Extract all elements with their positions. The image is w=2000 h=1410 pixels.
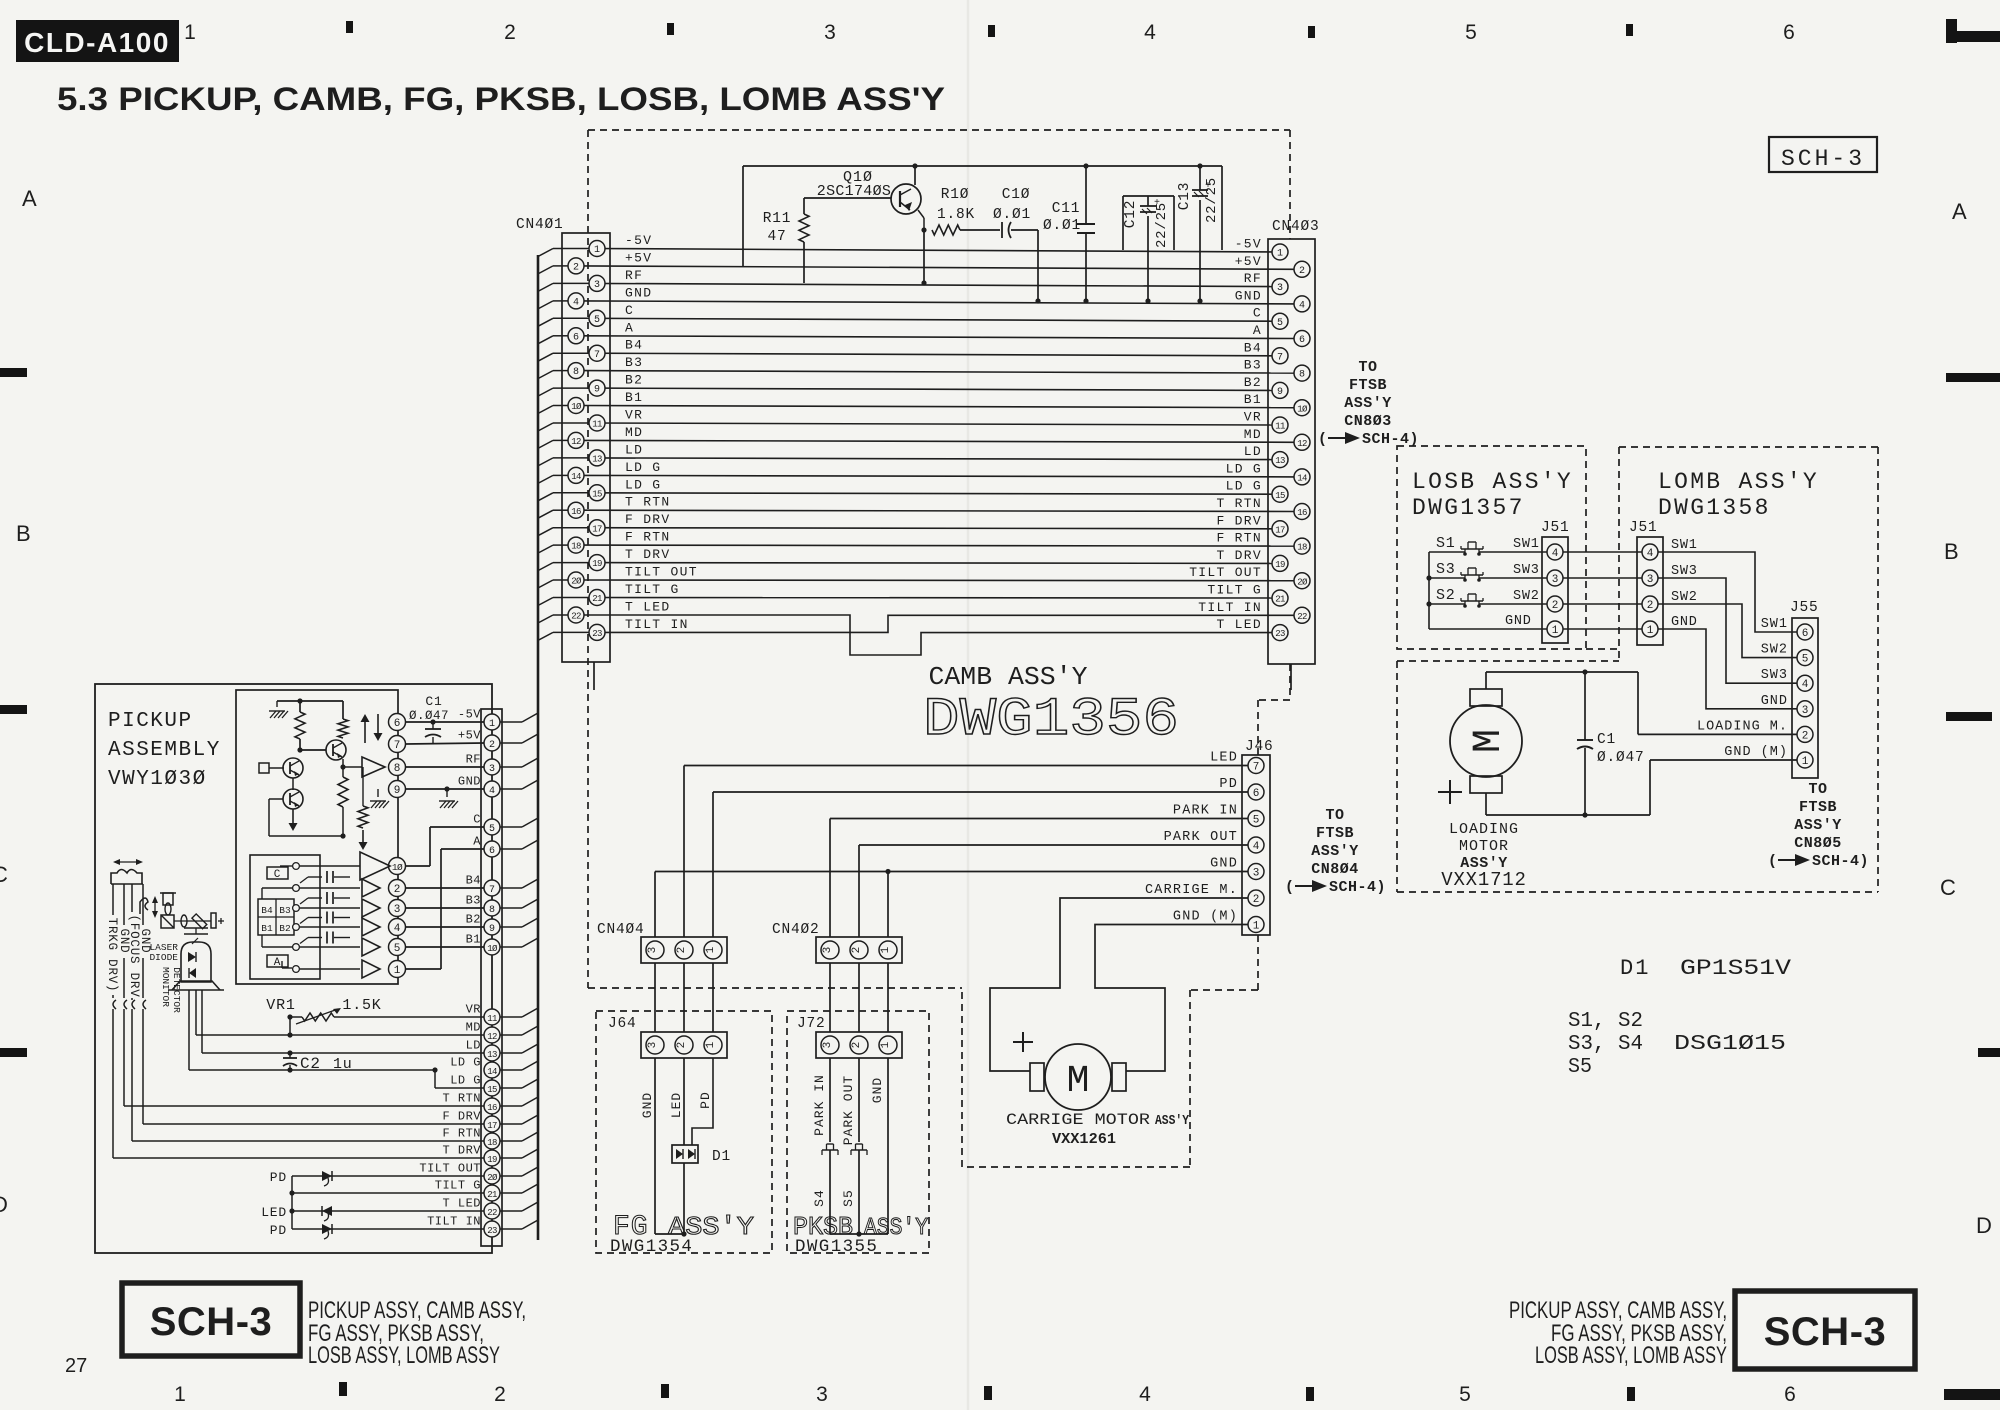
svg-text:22: 22	[571, 612, 581, 622]
svg-text:13: 13	[1275, 456, 1285, 466]
svg-text:B2: B2	[625, 373, 643, 388]
svg-text:PD: PD	[698, 1091, 713, 1109]
svg-text:B4: B4	[261, 905, 273, 916]
svg-text:A: A	[274, 957, 281, 969]
svg-text:16: 16	[487, 1103, 497, 1113]
svg-text:LD G: LD G	[450, 1074, 481, 1088]
svg-text:6: 6	[1784, 1383, 1796, 1406]
svg-text:CARRIGE M.: CARRIGE M.	[1145, 883, 1238, 898]
svg-text:14: 14	[571, 472, 581, 482]
svg-text:1: 1	[1552, 625, 1559, 637]
svg-text:J51: J51	[1629, 520, 1658, 536]
svg-text:S5: S5	[841, 1189, 856, 1207]
svg-text:C: C	[1940, 875, 1956, 900]
svg-text:SW2: SW2	[1761, 643, 1788, 658]
svg-text:CN4Ø1: CN4Ø1	[516, 217, 564, 233]
svg-text:7: 7	[489, 885, 495, 896]
svg-text:F DRV: F DRV	[442, 1110, 481, 1124]
svg-text:TILT G: TILT G	[1207, 583, 1262, 598]
svg-text:TILT G: TILT G	[435, 1179, 481, 1193]
svg-text:PARK OUT: PARK OUT	[841, 1075, 856, 1145]
svg-text:D: D	[1976, 1213, 1992, 1238]
svg-text:B2: B2	[279, 923, 291, 934]
svg-text:9: 9	[489, 924, 495, 935]
svg-text:DWG1355: DWG1355	[795, 1237, 878, 1257]
svg-text:VWY1Ø3Ø: VWY1Ø3Ø	[108, 768, 207, 791]
svg-text:2: 2	[504, 21, 516, 44]
svg-text:6: 6	[573, 332, 579, 343]
svg-text:ASS'Y: ASS'Y	[1344, 395, 1392, 412]
svg-text:21: 21	[1275, 595, 1285, 605]
svg-text:C2: C2	[300, 1055, 321, 1073]
svg-text:+5V: +5V	[1235, 254, 1262, 269]
svg-text:1: 1	[705, 946, 717, 953]
svg-text:3: 3	[594, 280, 600, 291]
svg-text:Ø.Ø47: Ø.Ø47	[409, 709, 449, 723]
svg-text:1: 1	[1802, 756, 1809, 768]
svg-text:1Ø: 1Ø	[392, 862, 403, 873]
svg-text:B2: B2	[466, 913, 481, 927]
svg-text:4: 4	[1552, 548, 1559, 560]
svg-text:17: 17	[592, 524, 602, 534]
svg-text:B3: B3	[1244, 358, 1262, 373]
svg-text:-5V: -5V	[625, 233, 652, 248]
svg-text:4: 4	[573, 298, 579, 309]
svg-text:Ø.Ø1: Ø.Ø1	[993, 207, 1031, 223]
svg-text:19: 19	[592, 559, 602, 569]
svg-text:3: 3	[1552, 574, 1559, 586]
svg-text:6: 6	[1783, 21, 1795, 44]
svg-text:B1: B1	[466, 933, 481, 947]
svg-text:J64: J64	[608, 1016, 637, 1032]
svg-text:B4: B4	[625, 338, 643, 353]
svg-text:C: C	[625, 303, 634, 318]
svg-text:4: 4	[394, 923, 401, 935]
svg-text:21: 21	[487, 1190, 497, 1200]
svg-text:1Ø: 1Ø	[487, 944, 498, 954]
svg-text:23: 23	[1275, 629, 1285, 639]
svg-text:16: 16	[571, 507, 581, 517]
svg-text:22/25: 22/25	[1154, 202, 1170, 248]
svg-text:2Ø: 2Ø	[487, 1173, 498, 1183]
svg-text:6: 6	[394, 718, 401, 730]
svg-text:SW1: SW1	[1671, 538, 1698, 553]
svg-text:(: (	[1285, 879, 1294, 896]
svg-text:5: 5	[1802, 654, 1809, 666]
svg-text:S1: S1	[1436, 535, 1456, 552]
svg-text:T DRV: T DRV	[1216, 548, 1262, 563]
svg-text:CN8Ø4: CN8Ø4	[1311, 861, 1359, 878]
svg-text:B1: B1	[261, 923, 273, 934]
svg-text:1Ø: 1Ø	[1297, 404, 1308, 414]
svg-text:8: 8	[1299, 370, 1305, 381]
svg-text:5: 5	[489, 824, 495, 835]
svg-text:DWG1356: DWG1356	[923, 690, 1179, 751]
svg-text:2: 2	[676, 947, 688, 954]
svg-text:TILT OUT: TILT OUT	[1189, 565, 1262, 580]
svg-text:B3: B3	[466, 894, 481, 908]
svg-text:3: 3	[647, 1042, 659, 1049]
svg-text:F DRV: F DRV	[625, 512, 671, 527]
svg-text:GND: GND	[625, 285, 652, 300]
svg-text:12: 12	[1297, 439, 1307, 449]
svg-text:CN4Ø3: CN4Ø3	[1272, 219, 1320, 235]
svg-text:5: 5	[1253, 815, 1260, 827]
svg-text:GND: GND	[870, 1077, 885, 1103]
svg-text:T LED: T LED	[1216, 617, 1262, 632]
svg-text:1: 1	[489, 719, 495, 730]
svg-text:14: 14	[487, 1067, 497, 1077]
svg-text:TO: TO	[1325, 807, 1344, 824]
svg-text:SW1: SW1	[1513, 537, 1540, 552]
svg-text:(: (	[1768, 853, 1777, 870]
svg-text:ASS'Y: ASS'Y	[1155, 1113, 1189, 1129]
svg-text:ASS'Y: ASS'Y	[1311, 843, 1359, 860]
svg-text:1: 1	[1647, 625, 1654, 637]
svg-text:M: M	[1067, 1060, 1090, 1103]
svg-text:C: C	[473, 813, 481, 827]
svg-text:2Ø: 2Ø	[1297, 577, 1308, 587]
svg-text:15: 15	[487, 1085, 497, 1095]
svg-text:SW2: SW2	[1671, 590, 1698, 605]
svg-text:5: 5	[1459, 1383, 1471, 1406]
svg-text:GND: GND	[1235, 288, 1262, 303]
svg-text:D1: D1	[1620, 956, 1650, 981]
svg-text:PD: PD	[270, 1223, 287, 1238]
svg-text:T DRV: T DRV	[625, 547, 671, 562]
svg-text:4: 4	[1144, 21, 1156, 44]
svg-text:-5V: -5V	[1235, 237, 1262, 252]
svg-text:CARRIGE MOTOR: CARRIGE MOTOR	[1006, 1111, 1150, 1129]
svg-text:+5V: +5V	[458, 729, 481, 743]
svg-text:1Ø: 1Ø	[571, 402, 582, 412]
svg-text:3: 3	[1277, 283, 1283, 294]
svg-text:11: 11	[487, 1014, 497, 1024]
svg-text:2: 2	[1253, 894, 1260, 906]
svg-text:2: 2	[676, 1042, 688, 1049]
svg-text:2: 2	[1647, 600, 1654, 612]
svg-text:SCH-3: SCH-3	[150, 1300, 273, 1344]
svg-text:4: 4	[1802, 679, 1809, 691]
svg-text:CAMB ASS'Y: CAMB ASS'Y	[929, 662, 1088, 692]
svg-text:PD: PD	[270, 1170, 287, 1185]
svg-text:VXX1712: VXX1712	[1441, 869, 1526, 891]
svg-text:MOTOR: MOTOR	[1459, 838, 1509, 855]
svg-text:FTSB: FTSB	[1349, 377, 1387, 394]
svg-text:D: D	[0, 1192, 8, 1217]
svg-text:5: 5	[1277, 318, 1283, 329]
svg-text:SW3: SW3	[1761, 668, 1788, 683]
svg-text:21: 21	[592, 594, 602, 604]
svg-text:PD: PD	[1219, 777, 1238, 792]
svg-text:CN4Ø2: CN4Ø2	[772, 922, 820, 938]
svg-text:1u: 1u	[333, 1056, 353, 1073]
svg-text:SCH-4): SCH-4)	[1812, 853, 1869, 870]
svg-text:TILT IN: TILT IN	[625, 617, 689, 632]
svg-text:1: 1	[705, 1041, 717, 1048]
svg-text:A: A	[22, 186, 37, 211]
svg-text:1: 1	[1253, 921, 1260, 933]
svg-text:2SC174ØS: 2SC174ØS	[817, 183, 891, 200]
svg-text:12: 12	[571, 437, 581, 447]
svg-text:MD: MD	[625, 425, 643, 440]
svg-text:LOSB ASSY, LOMB ASSY: LOSB ASSY, LOMB ASSY	[308, 1342, 500, 1369]
svg-text:8: 8	[573, 367, 579, 378]
svg-text:47: 47	[767, 229, 786, 245]
svg-text:13: 13	[487, 1050, 497, 1060]
svg-text:6: 6	[1802, 628, 1809, 640]
svg-text:2: 2	[394, 884, 401, 896]
svg-text:17: 17	[487, 1121, 497, 1131]
svg-text:J55: J55	[1790, 600, 1819, 616]
svg-text:GND: GND	[1671, 615, 1698, 630]
svg-text:3: 3	[822, 1042, 834, 1049]
svg-text:4: 4	[1253, 841, 1260, 853]
svg-text:VR: VR	[625, 408, 643, 423]
svg-text:GND: GND	[1210, 857, 1238, 872]
svg-text:GND: GND	[458, 775, 481, 789]
svg-text:R11: R11	[763, 211, 792, 227]
svg-text:TILT OUT: TILT OUT	[419, 1162, 481, 1176]
svg-text:T RTN: T RTN	[442, 1092, 481, 1106]
svg-text:LD G: LD G	[625, 460, 661, 475]
svg-text:MD: MD	[1244, 427, 1262, 442]
svg-text:LD: LD	[625, 442, 643, 457]
svg-text:A: A	[473, 835, 481, 849]
svg-text:3: 3	[1802, 705, 1809, 717]
svg-text:B: B	[16, 521, 31, 546]
svg-text:3: 3	[816, 1383, 828, 1406]
svg-text:C12: C12	[1123, 200, 1139, 229]
svg-text:TILT IN: TILT IN	[1198, 600, 1262, 615]
svg-text:18: 18	[1297, 543, 1307, 553]
svg-text:DWG1357: DWG1357	[1412, 495, 1525, 521]
svg-text:LD G: LD G	[1226, 461, 1262, 476]
svg-text:18: 18	[571, 542, 581, 552]
svg-text:LD: LD	[1244, 444, 1262, 459]
svg-text:DSG1Ø15: DSG1Ø15	[1674, 1033, 1786, 1056]
svg-text:DIODE: DIODE	[149, 952, 178, 963]
svg-text:VR: VR	[1244, 410, 1262, 425]
svg-text:FTSB: FTSB	[1799, 799, 1837, 816]
svg-text:LOADING: LOADING	[1449, 821, 1519, 838]
svg-text:3: 3	[822, 947, 834, 954]
svg-text:2: 2	[1299, 266, 1305, 277]
svg-text:ASS'Y: ASS'Y	[1794, 817, 1842, 834]
svg-text:TILT OUT: TILT OUT	[625, 565, 698, 580]
svg-text:1: 1	[880, 946, 892, 953]
svg-text:RF: RF	[625, 268, 643, 283]
svg-text:5: 5	[394, 943, 401, 955]
svg-text:LED: LED	[261, 1205, 287, 1220]
svg-text:TILT IN: TILT IN	[427, 1215, 481, 1229]
svg-text:T RTN: T RTN	[625, 495, 671, 510]
svg-text:B2: B2	[1244, 375, 1262, 390]
svg-text:5: 5	[594, 315, 600, 326]
svg-text:C1: C1	[1597, 732, 1616, 748]
svg-text:15: 15	[592, 489, 602, 499]
svg-text:+5V: +5V	[625, 250, 652, 265]
svg-text:A: A	[1952, 199, 1967, 224]
svg-text:S4: S4	[812, 1189, 827, 1207]
svg-text:-5V: -5V	[458, 708, 481, 722]
svg-text:A: A	[625, 320, 634, 335]
svg-text:VXX1261: VXX1261	[1052, 1132, 1116, 1148]
svg-text:SW2: SW2	[1513, 589, 1540, 604]
svg-text:MONITOR: MONITOR	[160, 967, 171, 1007]
svg-text:1.5K: 1.5K	[342, 997, 381, 1014]
svg-text:2: 2	[1552, 600, 1559, 612]
svg-text:22: 22	[487, 1208, 497, 1218]
svg-text:MD: MD	[466, 1021, 481, 1035]
svg-text:CN4Ø4: CN4Ø4	[597, 922, 645, 938]
svg-text:2: 2	[494, 1383, 506, 1406]
svg-text:14: 14	[1297, 474, 1307, 484]
svg-text:2: 2	[851, 1042, 863, 1049]
svg-text:A: A	[1253, 323, 1262, 338]
svg-text:4: 4	[1139, 1383, 1151, 1406]
svg-text:SCH-3: SCH-3	[1764, 1310, 1887, 1354]
svg-text:C13: C13	[1177, 182, 1193, 211]
svg-text:1: 1	[594, 245, 600, 256]
svg-text:LED: LED	[1210, 751, 1238, 766]
svg-text:8: 8	[394, 763, 401, 775]
svg-text:23: 23	[487, 1226, 497, 1236]
svg-text:PICKUP: PICKUP	[108, 710, 193, 733]
svg-text:22: 22	[1297, 612, 1307, 622]
svg-text:LED: LED	[669, 1092, 684, 1118]
svg-text:1: 1	[184, 21, 196, 44]
svg-text:GND: GND	[1505, 614, 1532, 629]
svg-text:4: 4	[1299, 301, 1305, 312]
svg-text:DWG1358: DWG1358	[1658, 495, 1771, 521]
svg-text:4: 4	[489, 786, 495, 797]
svg-text:18: 18	[487, 1138, 497, 1148]
svg-text:M: M	[1467, 729, 1512, 753]
svg-text:3: 3	[489, 764, 495, 775]
svg-text:B3: B3	[279, 905, 291, 916]
svg-text:TILT G: TILT G	[625, 582, 680, 597]
svg-text:C: C	[274, 869, 281, 881]
svg-text:PARK OUT: PARK OUT	[1164, 830, 1238, 845]
svg-text:F RTN: F RTN	[625, 530, 671, 545]
svg-text:TRKG DRV): TRKG DRV)	[105, 918, 119, 993]
svg-text:C1: C1	[425, 694, 442, 709]
svg-text:19: 19	[1275, 560, 1285, 570]
svg-text:9: 9	[594, 385, 600, 396]
svg-text:CLD-A100: CLD-A100	[24, 27, 170, 58]
svg-text:23: 23	[592, 629, 602, 639]
svg-text:B: B	[1944, 539, 1959, 564]
svg-text:Ø.Ø1: Ø.Ø1	[1043, 218, 1081, 234]
svg-text:C: C	[1253, 306, 1262, 321]
svg-text:GND: GND	[640, 1092, 655, 1118]
svg-text:4: 4	[1647, 548, 1654, 560]
svg-text:DWG1354: DWG1354	[610, 1237, 693, 1257]
svg-text:GND: GND	[1761, 694, 1788, 709]
svg-text:1: 1	[174, 1383, 186, 1406]
svg-text:LOADING M.: LOADING M.	[1697, 719, 1788, 734]
svg-text:17: 17	[1275, 525, 1285, 535]
svg-text:SW1: SW1	[1761, 617, 1788, 632]
svg-text:J46: J46	[1245, 739, 1274, 755]
svg-text:VR: VR	[466, 1003, 481, 1017]
svg-text:3: 3	[394, 904, 401, 916]
svg-text:SCH-3: SCH-3	[1781, 146, 1865, 172]
svg-text:8: 8	[489, 905, 495, 916]
svg-text:6: 6	[1299, 335, 1305, 346]
svg-text:VR1: VR1	[266, 997, 295, 1014]
svg-text:(FOCUS DRV: (FOCUS DRV	[127, 914, 141, 997]
svg-text:B3: B3	[625, 355, 643, 370]
svg-text:1.8K: 1.8K	[937, 207, 975, 223]
svg-text:B4: B4	[1244, 340, 1262, 355]
svg-text:B1: B1	[625, 390, 643, 405]
svg-text:2Ø: 2Ø	[571, 577, 582, 587]
svg-text:2: 2	[489, 740, 495, 751]
svg-text:SW3: SW3	[1671, 564, 1698, 579]
svg-text:7: 7	[394, 740, 401, 752]
svg-text:11: 11	[592, 420, 602, 430]
svg-text:T DRV: T DRV	[442, 1144, 481, 1158]
svg-text:15: 15	[1275, 491, 1285, 501]
svg-text:C1Ø: C1Ø	[1002, 187, 1031, 203]
svg-text:11: 11	[1275, 422, 1285, 432]
svg-text:LOMB ASS'Y: LOMB ASS'Y	[1658, 469, 1819, 495]
svg-text:1: 1	[394, 965, 401, 977]
svg-text:S3, S4: S3, S4	[1568, 1033, 1643, 1056]
svg-text:S2: S2	[1436, 587, 1456, 604]
svg-text:9: 9	[394, 785, 401, 797]
svg-text:GP1S51V: GP1S51V	[1680, 956, 1792, 981]
svg-text:CN8Ø5: CN8Ø5	[1794, 835, 1842, 852]
svg-text:ASSEMBLY: ASSEMBLY	[108, 739, 221, 762]
svg-text:9: 9	[1277, 387, 1283, 398]
svg-text:19: 19	[487, 1155, 497, 1165]
svg-text:J51: J51	[1541, 520, 1570, 536]
svg-text:7: 7	[1253, 762, 1260, 774]
svg-text:LOSB ASSY, LOMB ASSY: LOSB ASSY, LOMB ASSY	[1535, 1342, 1727, 1369]
svg-text:5.3 PICKUP, CAMB, FG, PKSB, L: 5.3 PICKUP, CAMB, FG, PKSB, LOSB, LOMB A…	[57, 81, 945, 117]
svg-text:LD G: LD G	[450, 1056, 481, 1070]
svg-text:LD: LD	[466, 1039, 481, 1053]
svg-text:FTSB: FTSB	[1316, 825, 1354, 842]
svg-text:S5: S5	[1568, 1056, 1592, 1079]
svg-text:DETECTOR: DETECTOR	[171, 967, 182, 1013]
svg-text:13: 13	[592, 455, 602, 465]
svg-text:F RTN: F RTN	[442, 1127, 481, 1141]
svg-text:S3: S3	[1436, 561, 1456, 578]
svg-text:LD G: LD G	[625, 477, 661, 492]
svg-text:C: C	[0, 862, 8, 887]
svg-text:T LED: T LED	[442, 1197, 481, 1211]
svg-text:2: 2	[1802, 730, 1809, 742]
svg-text:PARK IN: PARK IN	[1173, 804, 1238, 819]
svg-text:7: 7	[1277, 352, 1283, 363]
svg-text:5: 5	[1465, 21, 1477, 44]
svg-text:B1: B1	[1244, 392, 1262, 407]
svg-text:3: 3	[1647, 574, 1654, 586]
svg-text:F DRV: F DRV	[1216, 513, 1262, 528]
svg-text:3: 3	[647, 947, 659, 954]
svg-text:2: 2	[573, 263, 579, 274]
svg-text:6: 6	[489, 846, 495, 857]
svg-text:(: (	[1318, 431, 1327, 448]
svg-text:J72: J72	[797, 1016, 826, 1032]
svg-text:S1, S2: S1, S2	[1568, 1010, 1643, 1033]
svg-text:2: 2	[851, 947, 863, 954]
svg-text:7: 7	[594, 350, 600, 361]
